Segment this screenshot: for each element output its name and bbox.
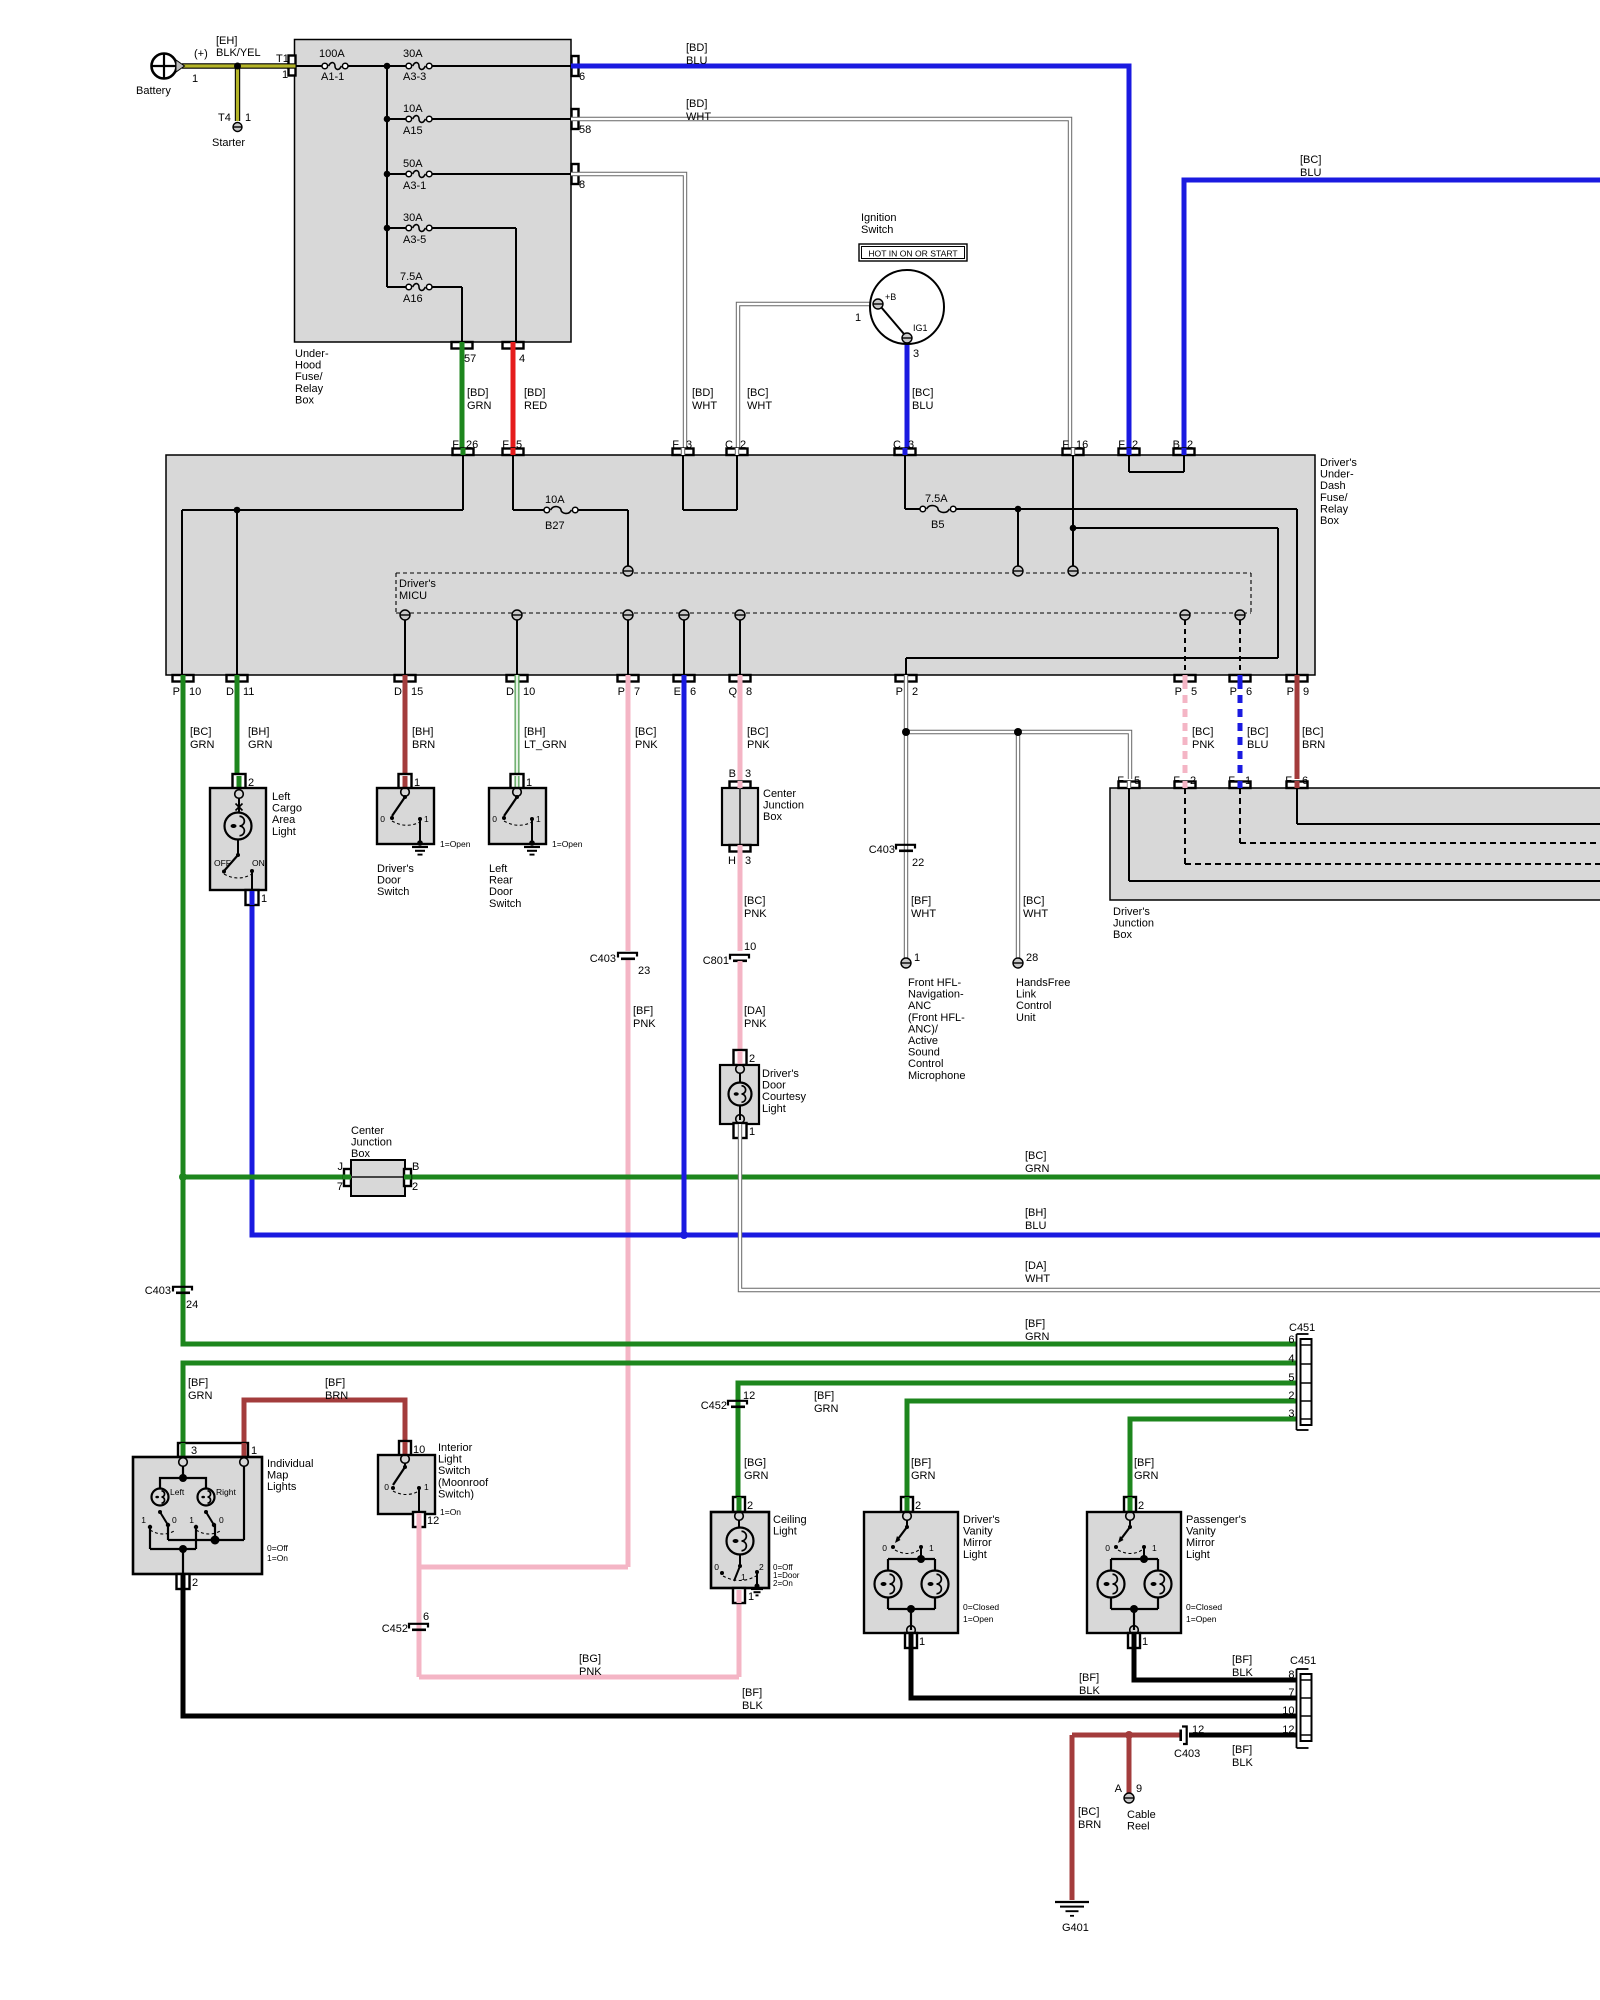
svg-text:[EH]: [EH] (216, 35, 237, 47)
svg-text:1: 1 (1142, 1636, 1148, 1648)
svg-text:Navigation-: Navigation- (908, 989, 964, 1001)
svg-text:PNK: PNK (579, 1666, 602, 1678)
svg-text:BRN: BRN (1302, 739, 1325, 751)
svg-text:2: 2 (740, 439, 746, 451)
svg-text:F: F (1118, 439, 1125, 451)
svg-text:[BH]: [BH] (248, 726, 269, 738)
svg-text:0=Off: 0=Off (267, 1543, 289, 1553)
svg-text:WHT: WHT (911, 908, 936, 920)
svg-text:58: 58 (579, 124, 591, 136)
svg-text:6: 6 (1288, 1334, 1294, 1346)
svg-text:3: 3 (686, 439, 692, 451)
svg-text:Light: Light (773, 1526, 797, 1538)
svg-text:[BD]: [BD] (524, 387, 545, 399)
svg-text:BLK: BLK (742, 1700, 763, 1712)
svg-text:Left: Left (170, 1487, 185, 1497)
svg-text:BLK: BLK (1079, 1685, 1100, 1697)
svg-text:F: F (1285, 775, 1292, 787)
svg-text:Switch: Switch (438, 1465, 470, 1477)
svg-text:Light: Light (1186, 1549, 1210, 1561)
svg-text:[BF]: [BF] (911, 895, 931, 907)
svg-text:BLU: BLU (912, 400, 933, 412)
svg-text:0: 0 (714, 1562, 719, 1572)
svg-text:B: B (1173, 439, 1180, 451)
svg-text:Light: Light (438, 1454, 462, 1466)
svg-text:Switch: Switch (861, 224, 893, 236)
svg-text:Light: Light (272, 826, 296, 838)
svg-text:6: 6 (423, 1611, 429, 1623)
svg-text:[BH]: [BH] (1025, 1207, 1046, 1219)
svg-text:1: 1 (424, 814, 429, 824)
svg-text:10A: 10A (545, 494, 565, 506)
svg-text:16: 16 (1076, 439, 1088, 451)
svg-text:F: F (1173, 775, 1180, 787)
svg-text:10A: 10A (403, 103, 423, 115)
svg-text:0: 0 (219, 1515, 224, 1525)
svg-text:[BF]: [BF] (1025, 1318, 1045, 1330)
svg-text:GRN: GRN (467, 400, 492, 412)
svg-text:12: 12 (427, 1515, 439, 1527)
svg-text:G401: G401 (1062, 1922, 1089, 1934)
svg-text:Vanity: Vanity (963, 1526, 993, 1538)
svg-text:1=Open: 1=Open (440, 839, 471, 849)
svg-text:[BC]: [BC] (1025, 1150, 1046, 1162)
svg-text:1: 1 (1152, 1543, 1157, 1553)
svg-text:Sound: Sound (908, 1047, 940, 1059)
svg-text:GRN: GRN (814, 1403, 839, 1415)
svg-text:Center: Center (763, 788, 796, 800)
svg-text:Reel: Reel (1127, 1821, 1150, 1833)
svg-text:1=Open: 1=Open (963, 1614, 994, 1624)
svg-text:Control: Control (908, 1058, 943, 1070)
svg-text:Area: Area (272, 814, 296, 826)
svg-text:D: D (226, 686, 234, 698)
svg-text:[BC]: [BC] (1300, 154, 1321, 166)
svg-text:1: 1 (261, 893, 267, 905)
svg-text:BLU: BLU (1247, 739, 1268, 751)
svg-text:C403: C403 (869, 844, 895, 856)
svg-text:(+): (+) (194, 48, 208, 60)
svg-text:2: 2 (1132, 439, 1138, 451)
svg-text:Battery: Battery (136, 85, 171, 97)
svg-text:F: F (452, 439, 459, 451)
svg-text:BRN: BRN (412, 739, 435, 751)
svg-text:[BC]: [BC] (747, 387, 768, 399)
svg-text:57: 57 (464, 353, 476, 365)
svg-text:C451: C451 (1289, 1322, 1315, 1334)
svg-text:Microphone: Microphone (908, 1070, 965, 1082)
svg-text:2: 2 (747, 1500, 753, 1512)
svg-text:Map: Map (267, 1470, 288, 1482)
svg-text:C801: C801 (703, 955, 729, 967)
svg-text:2: 2 (412, 1181, 418, 1193)
svg-text:10: 10 (523, 686, 535, 698)
svg-text:PNK: PNK (744, 908, 767, 920)
svg-text:[BD]: [BD] (686, 42, 707, 54)
svg-text:Box: Box (351, 1148, 370, 1160)
svg-text:50A: 50A (403, 158, 423, 170)
svg-text:P: P (896, 686, 903, 698)
svg-text:[BF]: [BF] (742, 1687, 762, 1699)
svg-text:1: 1 (424, 1482, 429, 1492)
svg-text:1=On: 1=On (440, 1507, 461, 1517)
svg-text:WHT: WHT (692, 400, 717, 412)
svg-text:ANC)/: ANC)/ (908, 1023, 939, 1035)
svg-text:Light: Light (762, 1103, 786, 1115)
svg-text:Light: Light (963, 1549, 987, 1561)
svg-text:Left: Left (489, 863, 507, 875)
svg-text:P: P (173, 686, 180, 698)
svg-text:0: 0 (380, 814, 385, 824)
svg-text:[BD]: [BD] (467, 387, 488, 399)
svg-text:A16: A16 (403, 293, 423, 305)
svg-text:PNK: PNK (1192, 739, 1215, 751)
svg-text:1=Open: 1=Open (552, 839, 583, 849)
svg-text:Interior: Interior (438, 1442, 473, 1454)
svg-text:[BF]: [BF] (633, 1005, 653, 1017)
svg-text:[BF]: [BF] (1079, 1672, 1099, 1684)
svg-text:Left: Left (272, 791, 290, 803)
svg-text:24: 24 (186, 1299, 198, 1311)
svg-text:1: 1 (914, 952, 920, 964)
svg-text:A3-1: A3-1 (403, 180, 426, 192)
svg-text:Lights: Lights (267, 1481, 297, 1493)
svg-text:8: 8 (746, 686, 752, 698)
svg-text:HOT IN ON OR START: HOT IN ON OR START (868, 249, 958, 259)
svg-text:1: 1 (749, 1126, 755, 1138)
svg-text:A: A (1115, 1783, 1123, 1795)
svg-text:0: 0 (882, 1543, 887, 1553)
svg-text:GRN: GRN (1025, 1331, 1050, 1343)
svg-text:F: F (672, 439, 679, 451)
svg-text:D: D (506, 686, 514, 698)
svg-text:2: 2 (192, 1577, 198, 1589)
svg-text:[BC]: [BC] (912, 387, 933, 399)
svg-text:22: 22 (912, 857, 924, 869)
svg-text:1: 1 (919, 1636, 925, 1648)
svg-text:P: P (1230, 686, 1237, 698)
svg-text:0=Closed: 0=Closed (1186, 1602, 1222, 1612)
svg-text:T4: T4 (218, 112, 231, 124)
svg-text:C: C (893, 439, 901, 451)
svg-text:Under-: Under- (295, 348, 329, 360)
svg-text:Passenger's: Passenger's (1186, 1514, 1247, 1526)
svg-text:Center: Center (351, 1125, 384, 1137)
svg-text:C403: C403 (145, 1285, 171, 1297)
svg-text:GRN: GRN (1134, 1470, 1159, 1482)
svg-text:Door: Door (762, 1080, 786, 1092)
svg-text:[BF]: [BF] (188, 1377, 208, 1389)
svg-text:3: 3 (745, 768, 751, 780)
svg-text:Courtesy: Courtesy (762, 1091, 807, 1103)
svg-text:1: 1 (1245, 775, 1251, 787)
svg-text:ANC: ANC (908, 1000, 931, 1012)
svg-text:BLU: BLU (686, 55, 707, 67)
svg-text:Fuse/: Fuse/ (295, 371, 323, 383)
svg-text:Relay: Relay (1320, 503, 1349, 515)
svg-text:3: 3 (745, 855, 751, 867)
svg-text:1: 1 (192, 73, 198, 85)
svg-text:Under-: Under- (1320, 469, 1354, 481)
svg-text:Ceiling: Ceiling (773, 1514, 807, 1526)
svg-text:Cargo: Cargo (272, 803, 302, 815)
svg-text:30A: 30A (403, 48, 423, 60)
svg-text:A3-3: A3-3 (403, 71, 426, 83)
svg-text:HandsFree: HandsFree (1016, 977, 1070, 989)
svg-text:PNK: PNK (744, 1018, 767, 1030)
svg-text:28: 28 (1026, 952, 1038, 964)
svg-text:5: 5 (516, 439, 522, 451)
svg-text:B: B (412, 1161, 419, 1173)
svg-text:26: 26 (466, 439, 478, 451)
svg-text:Junction: Junction (351, 1137, 392, 1149)
svg-text:Door: Door (377, 875, 401, 887)
svg-text:1: 1 (141, 1515, 146, 1525)
svg-text:[BC]: [BC] (1302, 726, 1323, 738)
svg-text:1: 1 (536, 814, 541, 824)
svg-text:[BF]: [BF] (911, 1457, 931, 1469)
svg-text:[BD]: [BD] (692, 387, 713, 399)
svg-text:100A: 100A (319, 48, 345, 60)
svg-text:Dash: Dash (1320, 480, 1346, 492)
svg-text:[BC]: [BC] (635, 726, 656, 738)
svg-text:C: C (725, 439, 733, 451)
svg-text:7: 7 (1288, 1687, 1294, 1699)
svg-text:J: J (338, 1161, 344, 1173)
svg-text:2: 2 (1190, 775, 1196, 787)
svg-text:F: F (502, 439, 509, 451)
svg-text:[DA]: [DA] (1025, 1260, 1046, 1272)
svg-text:2=On: 2=On (773, 1579, 793, 1588)
svg-text:+B: +B (885, 292, 896, 302)
svg-text:Relay: Relay (295, 383, 324, 395)
svg-text:Mirror: Mirror (1186, 1537, 1215, 1549)
svg-text:3: 3 (913, 348, 919, 360)
svg-text:IG1: IG1 (913, 323, 928, 333)
svg-text:1: 1 (282, 69, 288, 81)
svg-text:1: 1 (245, 112, 251, 124)
svg-text:Switch: Switch (377, 886, 409, 898)
svg-text:3: 3 (191, 1445, 197, 1457)
svg-text:MICU: MICU (399, 590, 427, 602)
svg-text:2: 2 (1187, 439, 1193, 451)
svg-text:[BC]: [BC] (1078, 1806, 1099, 1818)
svg-text:Vanity: Vanity (1186, 1526, 1216, 1538)
svg-text:2: 2 (749, 1053, 755, 1065)
svg-text:WHT: WHT (1025, 1273, 1050, 1285)
svg-text:9: 9 (1303, 686, 1309, 698)
svg-text:Right: Right (216, 1487, 236, 1497)
svg-text:4: 4 (519, 353, 525, 365)
svg-text:10: 10 (1282, 1705, 1294, 1717)
svg-text:P: P (1287, 686, 1294, 698)
svg-text:1: 1 (251, 1445, 257, 1457)
svg-text:Box: Box (295, 394, 314, 406)
svg-text:6: 6 (1246, 686, 1252, 698)
svg-text:12: 12 (743, 1390, 755, 1402)
svg-text:B27: B27 (545, 520, 565, 532)
svg-text:BLK: BLK (1232, 1757, 1253, 1769)
svg-text:GRN: GRN (188, 1390, 213, 1402)
svg-text:[BC]: [BC] (747, 726, 768, 738)
svg-text:[BG]: [BG] (579, 1653, 601, 1665)
svg-text:4: 4 (1288, 1353, 1294, 1365)
svg-text:Box: Box (1113, 929, 1132, 941)
svg-text:7.5A: 7.5A (400, 271, 423, 283)
svg-text:11: 11 (243, 686, 254, 698)
svg-text:Box: Box (763, 811, 782, 823)
svg-text:C451: C451 (1290, 1655, 1316, 1667)
svg-text:Driver's: Driver's (1320, 457, 1357, 469)
svg-text:Driver's: Driver's (963, 1514, 1000, 1526)
svg-text:WHT: WHT (686, 111, 711, 123)
svg-text:0: 0 (172, 1515, 177, 1525)
svg-text:2: 2 (912, 686, 918, 698)
svg-text:8: 8 (1288, 1669, 1294, 1681)
svg-text:D: D (394, 686, 402, 698)
svg-text:[BC]: [BC] (1192, 726, 1213, 738)
svg-text:10: 10 (744, 941, 756, 953)
svg-text:8: 8 (579, 179, 585, 191)
svg-text:C403: C403 (1174, 1748, 1200, 1760)
svg-text:[BF]: [BF] (1134, 1457, 1154, 1469)
svg-text:Junction: Junction (763, 800, 804, 812)
svg-text:1=On: 1=On (267, 1553, 288, 1563)
svg-text:BLU: BLU (1300, 167, 1321, 179)
svg-text:3: 3 (1288, 1408, 1294, 1420)
svg-text:7: 7 (337, 1181, 343, 1193)
svg-text:BLK: BLK (1232, 1667, 1253, 1679)
svg-text:6: 6 (690, 686, 696, 698)
svg-text:0=Closed: 0=Closed (963, 1602, 999, 1612)
svg-text:1=Open: 1=Open (1186, 1614, 1217, 1624)
svg-text:A15: A15 (403, 125, 423, 137)
svg-text:A3-5: A3-5 (403, 234, 426, 246)
svg-text:Rear: Rear (489, 875, 513, 887)
svg-text:GRN: GRN (248, 739, 273, 751)
svg-text:F: F (1062, 439, 1069, 451)
svg-text:Control: Control (1016, 1000, 1051, 1012)
svg-text:BLK/YEL: BLK/YEL (216, 47, 261, 59)
svg-text:7: 7 (634, 686, 640, 698)
svg-text:Fuse/: Fuse/ (1320, 492, 1348, 504)
svg-text:P: P (1175, 686, 1182, 698)
svg-text:BLU: BLU (1025, 1220, 1046, 1232)
svg-text:[BC]: [BC] (1247, 726, 1268, 738)
svg-text:Switch): Switch) (438, 1488, 474, 1500)
svg-text:[DA]: [DA] (744, 1005, 765, 1017)
svg-text:Driver's: Driver's (762, 1068, 799, 1080)
svg-text:Link: Link (1016, 989, 1037, 1001)
svg-text:GRN: GRN (911, 1470, 936, 1482)
svg-text:3: 3 (908, 439, 914, 451)
svg-text:E: E (674, 686, 681, 698)
svg-text:Hood: Hood (295, 360, 321, 372)
svg-text:1: 1 (748, 1591, 754, 1603)
svg-text:C452: C452 (382, 1623, 408, 1635)
svg-text:[BF]: [BF] (1232, 1654, 1252, 1666)
svg-text:1: 1 (929, 1543, 934, 1553)
svg-text:[BG]: [BG] (744, 1457, 766, 1469)
svg-text:[BC]: [BC] (1023, 895, 1044, 907)
svg-text:Driver's: Driver's (377, 863, 414, 875)
svg-text:0: 0 (384, 1482, 389, 1492)
svg-text:Active: Active (908, 1035, 938, 1047)
svg-text:9: 9 (1136, 1783, 1142, 1795)
svg-text:5: 5 (1134, 775, 1140, 787)
svg-text:B5: B5 (931, 519, 944, 531)
svg-text:BRN: BRN (1078, 1819, 1101, 1831)
svg-text:6: 6 (1302, 775, 1308, 787)
svg-text:Unit: Unit (1016, 1012, 1036, 1024)
svg-text:[BD]: [BD] (686, 98, 707, 110)
svg-text:F: F (1228, 775, 1235, 787)
svg-text:30A: 30A (403, 212, 423, 224)
svg-text:15: 15 (411, 686, 423, 698)
svg-text:Switch: Switch (489, 898, 521, 910)
svg-text:5: 5 (1288, 1372, 1294, 1384)
svg-text:C452: C452 (701, 1400, 727, 1412)
svg-text:Cable: Cable (1127, 1809, 1156, 1821)
svg-text:F: F (1117, 775, 1124, 787)
svg-text:LT_GRN: LT_GRN (524, 739, 567, 751)
svg-text:WHT: WHT (1023, 908, 1048, 920)
svg-text:0: 0 (492, 814, 497, 824)
svg-text:PNK: PNK (633, 1018, 656, 1030)
svg-text:P: P (618, 686, 625, 698)
svg-text:GRN: GRN (1025, 1163, 1050, 1175)
svg-text:2: 2 (759, 1562, 764, 1572)
svg-text:Ignition: Ignition (861, 212, 896, 224)
svg-text:12: 12 (1192, 1724, 1204, 1736)
svg-text:Mirror: Mirror (963, 1537, 992, 1549)
svg-text:[BF]: [BF] (814, 1390, 834, 1402)
svg-text:Door: Door (489, 886, 513, 898)
svg-text:ON: ON (252, 858, 265, 868)
svg-text:1: 1 (189, 1515, 194, 1525)
svg-text:A1-1: A1-1 (321, 71, 344, 83)
svg-text:7.5A: 7.5A (925, 493, 948, 505)
svg-text:H: H (728, 855, 736, 867)
svg-text:B: B (729, 768, 736, 780)
svg-text:2: 2 (915, 1500, 921, 1512)
svg-text:T1: T1 (276, 53, 289, 65)
svg-text:23: 23 (638, 965, 650, 977)
svg-text:BRN: BRN (325, 1390, 348, 1402)
svg-text:PNK: PNK (747, 739, 770, 751)
svg-text:2: 2 (1288, 1390, 1294, 1402)
svg-text:RED: RED (524, 400, 547, 412)
svg-text:6: 6 (579, 71, 585, 83)
svg-text:Q: Q (728, 686, 737, 698)
svg-text:GRN: GRN (744, 1470, 769, 1482)
svg-text:C403: C403 (590, 953, 616, 965)
svg-text:[BF]: [BF] (1232, 1744, 1252, 1756)
svg-text:2: 2 (1138, 1500, 1144, 1512)
svg-text:[BF]: [BF] (325, 1377, 345, 1389)
svg-text:0: 0 (1105, 1543, 1110, 1553)
svg-text:[BC]: [BC] (744, 895, 765, 907)
svg-text:GRN: GRN (190, 739, 215, 751)
svg-text:Driver's: Driver's (1113, 906, 1150, 918)
svg-text:Driver's: Driver's (399, 578, 436, 590)
svg-text:WHT: WHT (747, 400, 772, 412)
svg-text:5: 5 (1191, 686, 1197, 698)
svg-text:[BC]: [BC] (190, 726, 211, 738)
svg-text:Starter: Starter (212, 137, 245, 149)
svg-text:1: 1 (855, 312, 861, 324)
svg-text:PNK: PNK (635, 739, 658, 751)
